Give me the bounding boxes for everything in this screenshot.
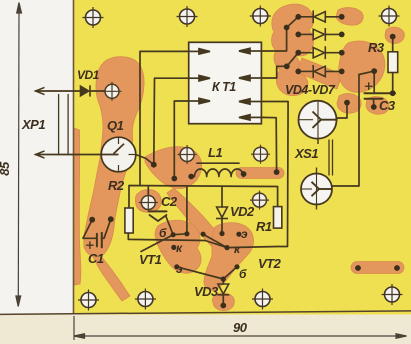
L1 pads	[188, 174, 194, 180]
svg-text:ХS1: ХS1	[294, 146, 318, 161]
wire Q1 collector vertical to relay arrow2	[154, 78, 209, 165]
trace VD3 bottom lump	[212, 293, 234, 311]
VD2/VT2 pads	[219, 231, 224, 236]
via pad VD1	[103, 82, 122, 101]
trace arm from diodes to R3 patch	[297, 58, 342, 89]
diode VD7 (row4, pointing left)	[298, 65, 341, 78]
L1 coil	[191, 169, 243, 177]
diode VD2 leads	[221, 187, 223, 208]
trace R3/C3 patch	[338, 41, 384, 92]
orange copper traces	[74, 4, 404, 311]
XS1 double lines between sockets	[328, 140, 330, 175]
R3 pads	[390, 34, 396, 40]
resistor R1	[274, 207, 282, 229]
relay left arrow lines	[189, 49, 210, 104]
wire XP1 top	[36, 90, 81, 92]
resistor R3	[388, 52, 398, 73]
trace VT2/VD3 patch	[204, 223, 254, 291]
trace bar bottom-right	[351, 262, 404, 274]
wire stub via C2	[147, 186, 149, 196]
trace strip along left board edge	[74, 128, 81, 285]
C3/R3 junction wires	[359, 71, 374, 74]
svg-text:VT2: VT2	[258, 256, 282, 271]
trace lump at diode right pad row1	[336, 8, 363, 26]
trace lump C3 bottom	[366, 97, 389, 115]
svg-text:б: б	[159, 226, 167, 240]
diode VD3 leads	[222, 279, 224, 284]
C1 pads	[89, 217, 95, 223]
corner dots right of relay	[284, 25, 290, 31]
trace lump socket1 top	[337, 94, 361, 114]
via pad L1 right lower	[250, 191, 269, 210]
socket XS1 pin1	[299, 101, 338, 144]
trace bar L1-right (two pads)	[236, 168, 284, 179]
dimension 90	[74, 316, 407, 340]
svg-text:б: б	[239, 267, 247, 281]
diode pads	[295, 14, 301, 20]
wire XP1 bottom to Q1	[36, 154, 119, 156]
diode VD3 (pointing down)	[217, 284, 229, 295]
center dots	[184, 231, 189, 236]
capacitor C1 leads	[83, 220, 97, 239]
resistor R2	[125, 208, 133, 233]
mounting holes bottom	[78, 290, 99, 311]
diode VD6 (row3, pointing right)	[298, 46, 341, 59]
svg-text:С3: С3	[379, 98, 396, 113]
diode VD2 (pointing down)	[216, 207, 228, 219]
VD3 pads	[221, 276, 226, 281]
via pad C2	[139, 193, 158, 212]
dimension 85	[16, 3, 22, 307]
via pad L1 left	[178, 145, 197, 164]
wire vertical to dot2	[186, 186, 188, 234]
svg-text:VT1: VT1	[139, 252, 162, 267]
trace big left band	[84, 57, 144, 257]
wire relay right arrow2 to diode3	[261, 53, 298, 78]
wire relay left arrow3	[174, 101, 209, 179]
wire slant dot3 to k2	[203, 234, 227, 247]
XP1 arrows	[36, 87, 45, 158]
svg-text:VD1: VD1	[77, 68, 100, 82]
transistor Q1 circle	[101, 137, 136, 172]
C3 plus	[366, 85, 373, 87]
trace VT1 patch	[155, 220, 201, 273]
PCB board yellow	[74, 0, 411, 315]
svg-text:R3: R3	[368, 40, 385, 55]
XS1 long right wire to socket2	[332, 75, 359, 187]
svg-text:R1: R1	[256, 219, 272, 234]
socket XS1 pin2	[301, 168, 332, 210]
Q1 collector dot	[151, 162, 157, 168]
svg-text:R2: R2	[108, 178, 125, 193]
bottom cream strip	[0, 311, 411, 344]
R3 leads	[392, 38, 394, 52]
wire slant b2 to VD3 top	[223, 267, 237, 279]
C3 plates	[365, 92, 396, 94]
diode VD1	[81, 85, 91, 96]
svg-text:Q1: Q1	[107, 118, 124, 133]
svg-text:VD2: VD2	[230, 204, 255, 219]
board edge left	[73, 0, 75, 314]
trace wisp band foot to hole2	[93, 255, 130, 301]
via pad L1 right upper	[251, 145, 270, 164]
wire relay left arrow1	[140, 51, 209, 185]
wire bus bottom R2-R1	[128, 102, 288, 248]
svg-text:э: э	[241, 227, 248, 241]
svg-text:VD4-VD7: VD4-VD7	[285, 83, 336, 97]
svg-text:ХР1: ХР1	[21, 117, 45, 132]
svg-text:90: 90	[233, 320, 248, 335]
C2 plates	[149, 210, 167, 212]
relay K T1 box	[189, 42, 262, 123]
trace lump around C2 via	[135, 190, 161, 213]
trace diode VD4-VD7 blob	[272, 4, 314, 96]
wire VD1 to via	[90, 90, 105, 92]
wire Q1 collector diagonal	[136, 155, 154, 165]
trace diag streak to VT area	[167, 188, 238, 265]
svg-text:э: э	[176, 262, 183, 276]
svg-text:С1: С1	[88, 251, 104, 266]
svg-text:L1: L1	[208, 145, 222, 160]
relay right arrow lines	[239, 48, 261, 120]
XS1 socket1 wire to pad	[336, 103, 348, 118]
capacitor C2 lead	[166, 217, 173, 235]
wire slant e1 to VD3 top	[177, 267, 224, 279]
C1 plates	[96, 234, 98, 247]
svg-text:С2: С2	[161, 194, 178, 209]
connector XP1 double lines	[58, 95, 60, 155]
wire relay right arrow1 to diode1	[261, 17, 298, 51]
C1 plus	[87, 244, 93, 246]
wire diagonal b (R2 area to b1 and dot2)	[141, 234, 187, 252]
VT1 pads	[171, 232, 176, 237]
svg-text:VD3: VD3	[194, 284, 219, 299]
XS1 wire pad	[344, 100, 350, 106]
bottom right trace pads	[355, 265, 361, 271]
solder pads (dots)	[89, 14, 400, 309]
svg-text:85: 85	[0, 161, 12, 176]
trace L1 blob with arm to Q1 dot	[145, 147, 202, 189]
mounting holes top	[83, 7, 104, 28]
svg-text:К Т1: К Т1	[212, 80, 236, 94]
trace lump R3 top	[385, 27, 404, 43]
L1 core line	[197, 162, 239, 164]
wire relay right arrow4 to pad	[261, 117, 276, 172]
C3 pads	[371, 68, 377, 74]
board edge bottom full line	[0, 311, 411, 315]
diode VD4 (row1, pointing left)	[298, 10, 341, 23]
diode VD5 (row2, pointing right)	[298, 28, 341, 41]
wire bus H1 (R2 top to R1 top)	[129, 186, 278, 209]
